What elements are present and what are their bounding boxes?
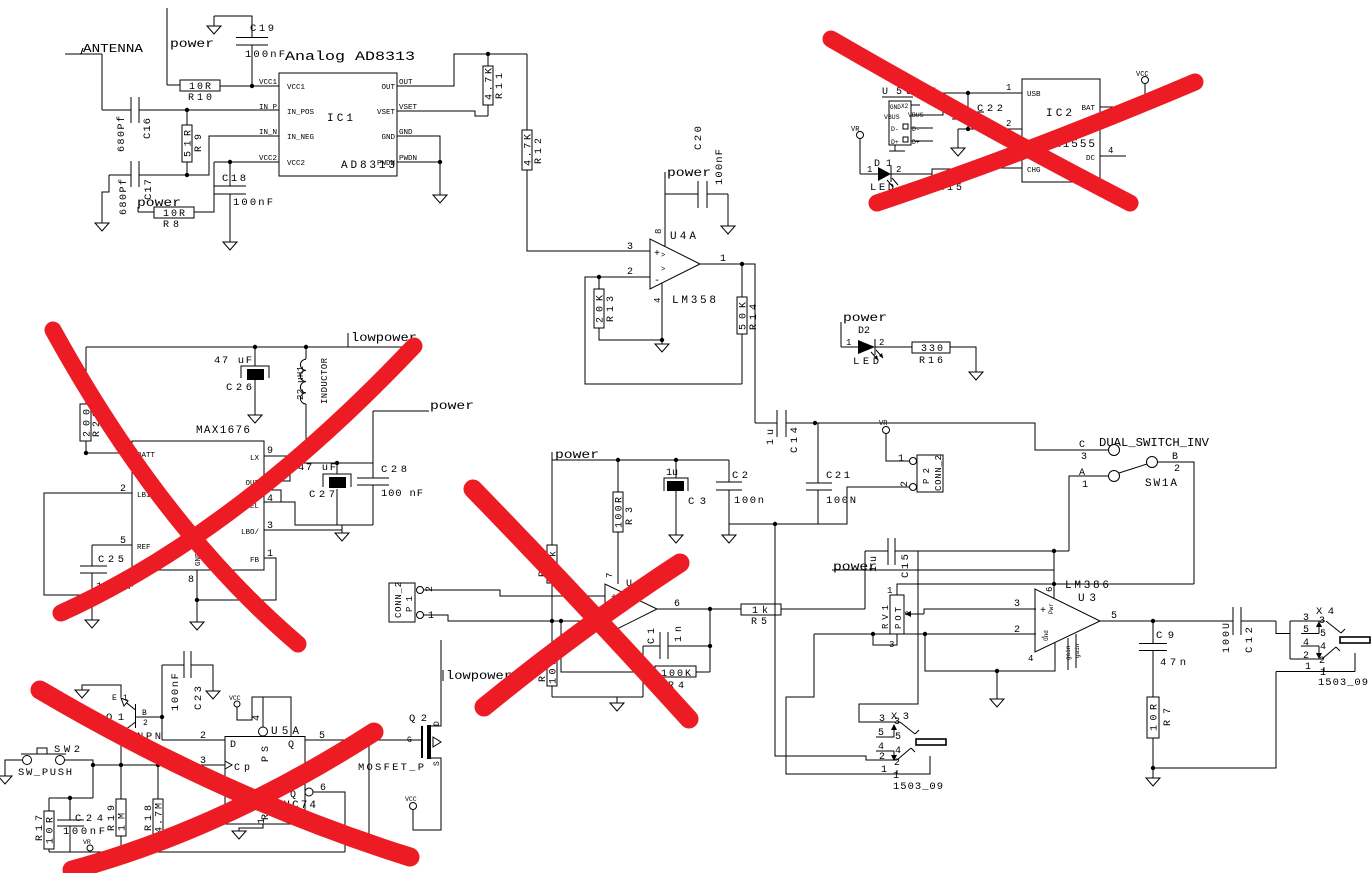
ground [722,524,736,543]
ground [969,372,983,380]
wire LX pin [264,404,306,456]
junction C9 [1151,619,1155,623]
svg-text:4: 4 [1320,642,1326,653]
wire D2 to R16 [875,346,912,348]
svg-text:6: 6 [1045,587,1055,592]
svg-text:5: 5 [895,732,901,743]
svg-text:BAT: BAT [1081,105,1095,113]
svg-text:D+: D+ [891,139,899,146]
svg-text:+: + [1040,606,1046,617]
svg-text:10R: 10R [189,82,211,93]
svg-text:3: 3 [1014,599,1020,610]
svg-text:10R: 10R [46,817,57,844]
wire R5 to C15 [864,551,866,609]
connector X4 1503_09 jack [1276,606,1370,689]
svg-text:100K: 100K [661,669,691,680]
junction C1/output [708,644,712,648]
svg-text:1: 1 [428,611,434,622]
capacitor C21 [806,423,856,524]
resistor R23 [80,347,103,453]
wire FB pin [197,558,276,600]
svg-text:8: 8 [188,575,194,586]
junction R11 top [486,52,490,56]
svg-text:B: B [142,709,147,718]
svg-text:VCC: VCC [405,796,417,803]
svg-text:3: 3 [627,242,633,253]
svg-text:VBUS: VBUS [884,114,900,121]
wire output node down [709,609,711,672]
wire power rail [552,459,729,461]
resistor R18 [144,765,166,852]
svg-text:R11: R11 [495,73,506,99]
wire power rail drop [551,460,553,545]
capacitor C20 [665,126,728,226]
wire U5A pin1 gnd [239,824,263,831]
resistor R4 [561,621,710,692]
svg-text:E: E [112,694,117,703]
resistor R14 [737,264,760,384]
capacitor C24 [57,798,105,852]
op-amp U3 LM386 [1035,580,1109,660]
junction R7 bottom [1151,766,1155,770]
svg-text:1: 1 [1006,83,1011,93]
wire IN_N [187,136,279,175]
svg-text:VCC1: VCC1 [259,79,278,87]
ground (top, near C19) [207,16,252,37]
capacitor C9 [1139,621,1186,697]
capacitor C26 (polarized 47uF) [214,347,269,415]
svg-text:INDUCTOR: INDUCTOR [320,357,330,404]
power label (C20 / U4A) [665,166,711,246]
wire P2 pin1 to VR [886,434,909,461]
junction R13 top [597,275,601,279]
capacitor C2 [716,460,764,524]
svg-text:1: 1 [257,818,268,824]
node lowpower label (Q2 drain) [443,669,512,683]
svg-text:REF: REF [137,544,151,552]
ground [232,831,246,839]
svg-text:4: 4 [267,494,273,505]
resistor R8 [154,162,214,231]
svg-text:IC2: IC2 [1046,108,1072,120]
flip-flop U5A 74HC74 [225,726,316,824]
connector U5 USB [882,87,936,151]
junction pin8/FB [195,598,199,602]
svg-text:100 nF: 100 nF [381,488,423,500]
svg-text:power: power [170,37,214,51]
wire U3 output [1100,620,1233,622]
resistor R15 [932,168,1022,194]
svg-text:SW1A: SW1A [1145,478,1177,490]
svg-text:power: power [667,166,711,180]
wire U1 output [657,608,741,610]
svg-text:2: 2 [879,752,885,763]
wire GND pin 8 [196,570,198,622]
wire lowpower to Q2 drain [431,640,441,726]
wire gate pulldown drop [345,740,369,840]
svg-text:LBO/: LBO/ [241,529,260,537]
wire OUT pin node [264,463,373,481]
wire VCC2 pin [214,161,279,163]
potentiometer RV1 [873,586,924,650]
red X mark (over IC2 section) [831,39,1130,203]
svg-text:R14: R14 [749,304,760,330]
svg-text:OUT: OUT [381,84,395,92]
svg-text:1u: 1u [666,468,678,479]
svg-text:VR: VR [83,839,91,846]
svg-text:100N: 100N [826,495,856,507]
junction GND/PWDN [438,160,442,164]
wire U4A output [700,264,755,423]
wire U3 inverting line [814,633,1036,635]
svg-text:2: 2 [1014,625,1020,636]
power flag VCC (Q2 source) [405,796,417,810]
op-amp U1 [605,579,657,635]
wire ONB pin [264,490,281,502]
svg-text:CHG: CHG [1027,167,1041,175]
op-amp IC1 AD8313 box [279,73,397,176]
svg-text:Gnd: Gnd [1043,630,1050,641]
wire U4A inverting input [585,277,742,384]
svg-text:+: + [654,249,660,260]
power label (boost output) [373,399,474,413]
wire P1 pin2 to U1 + [424,590,605,596]
wire Qbar [313,792,345,852]
svg-text:C14: C14 [789,427,801,453]
wire BAT pin to VCC [1100,84,1145,107]
svg-text:C26: C26 [226,382,252,394]
ground [95,223,109,231]
svg-text:2: 2 [425,586,436,592]
wire VSET [397,111,488,116]
wire LBO/ pin [264,529,342,531]
svg-text:R18: R18 [144,805,155,831]
svg-text:2: 2 [1303,651,1309,662]
svg-text:100nF: 100nF [233,197,273,209]
capacitor C23 [162,651,213,711]
svg-text:C24: C24 [75,813,103,825]
svg-text:Q: Q [288,740,294,751]
svg-text:VR: VR [851,126,860,134]
wire IC2 gnd pin [958,128,1022,130]
resistor R5 [741,604,865,628]
svg-text:DC: DC [1086,155,1096,163]
wire P1 pin1 to U1 - [424,615,605,621]
IC2 MAX1555 box [1022,79,1100,182]
svg-text:20K: 20K [596,295,607,323]
svg-text:100nF: 100nF [714,149,726,185]
resistor R19 [107,765,129,852]
svg-text:4: 4 [1303,638,1309,649]
ground [655,344,669,352]
capacitor C14 [755,410,801,453]
svg-text:power: power [137,196,181,210]
resistor R11 [483,54,506,116]
capacitor C27 (polarized 47uF) [298,462,351,525]
wire LBI loop [44,493,132,595]
svg-text:USB: USB [1027,91,1041,99]
svg-text:IN_POS: IN_POS [287,109,315,117]
pin 1 stub U3 [1067,638,1069,670]
svg-text:10R: 10R [1150,704,1161,731]
svg-text:C: C [1079,440,1085,451]
svg-text:power: power [833,560,877,574]
svg-text:SW_PUSH: SW_PUSH [18,767,72,779]
wire switch B [1158,462,1194,584]
junction output node [708,607,712,611]
svg-text:-: - [654,276,660,287]
power label (R8) [137,196,181,212]
capacitor C15 [865,538,1069,578]
svg-text:1: 1 [123,694,128,703]
svg-text:D-: D- [891,126,899,133]
capacitor C25 [80,545,134,595]
svg-text:D+: D+ [912,139,920,146]
wire VR bottom rail [49,851,345,853]
capacitor C22 [952,93,1003,129]
svg-text:51R: 51R [184,130,195,157]
svg-text:47n: 47n [1160,657,1186,669]
ground [75,690,89,698]
svg-text:LM358: LM358 [672,295,716,307]
svg-text:R13: R13 [606,296,617,322]
junction U3 pin6 [1052,549,1056,553]
capacitor C16 [102,97,187,152]
ground [610,697,624,711]
wire wiper to U3 + [924,609,1036,614]
power label (main rail) [552,448,599,462]
svg-text:C21: C21 [826,470,850,482]
svg-text:power: power [843,311,887,325]
junction C22 [966,91,970,95]
transistor Q1 NPN [106,690,162,765]
svg-text:GND: GND [381,134,395,142]
svg-text:R17: R17 [35,815,46,841]
wire clock line Cp [93,764,225,766]
wire CLSEL pin [264,502,337,525]
pin 8 stub U3 [1075,634,1077,668]
capacitor C18 [214,162,273,242]
junction C22 bottom [966,127,970,131]
junction C25 bottom [90,593,94,597]
ground [669,535,683,543]
junction C18 top [228,160,232,164]
wire GND pin [397,136,440,195]
svg-text:C18: C18 [222,173,246,185]
svg-text:2: 2 [200,731,206,742]
red X mark (over U5A section) [40,690,410,857]
svg-text:VCC: VCC [1136,71,1149,79]
svg-text:4.7M: 4.7M [155,803,166,833]
wire DC pin [1100,155,1126,157]
svg-text:VCC2: VCC2 [287,160,305,168]
svg-text:VCC1: VCC1 [287,84,306,92]
svg-text:22 uH1: 22 uH1 [296,366,306,400]
wire VBUS to C22/IC2 [922,93,1022,115]
svg-text:100nF: 100nF [63,826,105,838]
capacitor C19 [236,23,285,86]
svg-text:9: 9 [267,446,273,457]
junction pin4/R13 [660,338,664,342]
resistor R12 [522,54,650,251]
svg-text:2: 2 [143,719,148,728]
resistor R17 [35,798,57,852]
node ANTENNA label [65,42,144,56]
svg-text:D2: D2 [858,326,870,337]
svg-text:IC1: IC1 [327,113,353,125]
ground [1146,778,1160,786]
wire Q output to gate [305,739,422,741]
resistor R9 [182,110,205,175]
junction C26 top [253,345,257,349]
LED D2 [846,326,884,368]
wire X3 pin1 route [786,634,930,774]
ground [433,195,447,203]
junction Q1 base / C23 [160,715,164,719]
junction inductor top [304,345,308,349]
svg-text:5: 5 [1111,611,1117,622]
svg-text:100n: 100n [734,495,764,507]
svg-text:47 uF: 47 uF [214,355,252,367]
svg-text:POT: POT [894,606,904,629]
svg-text:RV1: RV1 [881,605,891,629]
svg-text:1: 1 [1305,662,1311,673]
ground [951,129,965,156]
svg-text:1: 1 [720,254,726,265]
resistor R13 [594,277,663,340]
power label (VCC1 rail) [167,8,214,85]
svg-text:50K: 50K [739,302,750,330]
svg-text:330: 330 [921,344,943,355]
svg-text:1: 1 [846,338,851,348]
svg-text:7: 7 [605,573,615,578]
switch SW2 SW_PUSH [18,744,80,779]
wire C2/C21 bottom node [729,487,909,524]
svg-text:4: 4 [1108,146,1113,156]
svg-text:>: > [661,266,665,274]
junction U3 gnd drop [923,632,927,636]
wire lowpower rail [86,346,414,348]
ground [85,595,99,628]
svg-text:VCC: VCC [229,695,241,702]
wire IN_P to IC1 [187,109,279,111]
junction R2/inv input [550,619,554,623]
capacitor C12 [1222,607,1276,653]
svg-text:1503_09: 1503_09 [1318,677,1368,689]
svg-text:X2: X2 [901,103,909,110]
svg-text:power: power [430,399,474,413]
svg-text:1503_09: 1503_09 [893,781,943,793]
svg-text:1: 1 [1082,480,1088,491]
wire C27/C28 bottom [337,524,373,526]
wire R17/C24 node [49,797,93,799]
svg-text:C28: C28 [381,464,407,476]
svg-text:R19: R19 [107,805,118,831]
wire switch A [1069,476,1108,551]
wire U3 gnd net [925,634,1055,671]
svg-text:5: 5 [1320,629,1326,640]
svg-text:100nF: 100nF [245,49,285,61]
svg-text:C12: C12 [1244,627,1256,653]
svg-text:U4A: U4A [670,231,696,243]
wire REF [92,544,132,546]
svg-text:2: 2 [900,481,911,487]
node lowpower label (MAX1676) [348,331,417,347]
wire SW2 right [65,760,93,798]
wire SW2 left to gnd [5,760,22,776]
junction gate drop [367,738,371,742]
svg-text:D: D [433,721,442,726]
junction C27 top [335,461,339,465]
switch SW1A DUAL_SWITCH_INV [1079,436,1210,491]
svg-text:G: G [407,736,412,745]
svg-text:2: 2 [1174,464,1180,475]
svg-text:10R: 10R [163,209,185,220]
junction gnd stub [995,669,999,673]
svg-text:A: A [1079,468,1085,479]
wire BATT pin [86,452,132,454]
svg-text:C15: C15 [900,554,912,578]
connector P2 CONN_2 [898,454,944,492]
junction C17/R9 [185,173,189,177]
svg-text:100U: 100U [1222,623,1233,653]
resistor R3 [613,460,636,584]
svg-text:5: 5 [319,731,325,742]
junction R18 [156,763,160,767]
resistor R2 [538,545,560,657]
svg-text:IN_N: IN_N [259,129,277,137]
capacitor C17 [109,161,187,215]
ground [190,622,204,630]
transistor Q2 MOSFET_P [358,713,442,830]
wire D1 to R15 [891,173,932,175]
svg-text:>: > [661,252,665,260]
junction R3 [616,458,620,462]
svg-text:1: 1 [887,586,892,596]
svg-text:1: 1 [867,165,872,175]
power flag VR (battery rail) [83,839,93,851]
op-amp U4A LM358 [650,229,716,307]
wire C14 to switch [786,423,1108,450]
svg-text:U5A: U5A [271,726,299,738]
junction C19/VCC1 wire [250,84,254,88]
svg-text:680Pf: 680Pf [116,116,128,152]
svg-text:2: 2 [627,267,633,278]
svg-text:C23: C23 [193,686,205,710]
svg-text:gain: gain [1074,643,1081,658]
svg-text:CONN_2: CONN_2 [934,455,944,491]
wire PWDN pin [397,161,440,163]
svg-text:C22: C22 [977,103,1003,115]
svg-text:R16: R16 [919,356,943,367]
svg-text:C16: C16 [142,118,154,139]
wire U3 pin6 stub [1053,551,1055,599]
junction IN_P/R9 [185,108,189,112]
capacitor C1 [643,626,710,697]
power label (D2 LED) [841,311,887,347]
svg-text:MAX1676: MAX1676 [196,425,250,437]
junction BATT pin [84,451,88,455]
svg-text:GND: GND [890,104,901,111]
LED D1 [867,159,901,194]
IC MAX1676 box [132,425,264,570]
resistor R16 [912,342,976,372]
junction power/switch [1052,582,1056,586]
resistor R10 [180,80,279,104]
svg-text:3: 3 [1081,452,1087,463]
svg-text:LM386: LM386 [1065,580,1109,592]
power flag VR (D1 anode) [851,126,878,174]
